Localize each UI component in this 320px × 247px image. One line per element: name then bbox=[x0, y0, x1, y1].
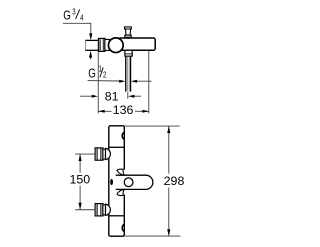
svg-text:2: 2 bbox=[103, 72, 106, 80]
svg-text:81: 81 bbox=[105, 90, 119, 104]
svg-text:136: 136 bbox=[113, 103, 134, 117]
svg-text:3: 3 bbox=[72, 9, 75, 17]
svg-text:G: G bbox=[88, 66, 96, 81]
svg-text:298: 298 bbox=[164, 174, 185, 188]
svg-text:4: 4 bbox=[80, 15, 83, 23]
svg-text:150: 150 bbox=[69, 173, 90, 187]
svg-text:G: G bbox=[63, 8, 71, 23]
